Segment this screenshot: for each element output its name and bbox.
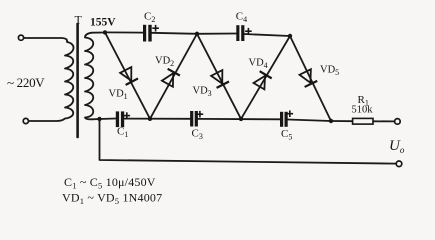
- svg-text:T: T: [75, 13, 83, 27]
- svg-text:~ 220V: ~ 220V: [7, 75, 45, 90]
- svg-text:155V: 155V: [90, 17, 116, 29]
- svg-text:C1 ~ C5 10μ/450V: C1 ~ C5 10μ/450V: [64, 175, 156, 191]
- svg-text:VD1 ~ VD5 1N4007: VD1 ~ VD5 1N4007: [62, 191, 162, 207]
- svg-text:510k: 510k: [352, 105, 374, 116]
